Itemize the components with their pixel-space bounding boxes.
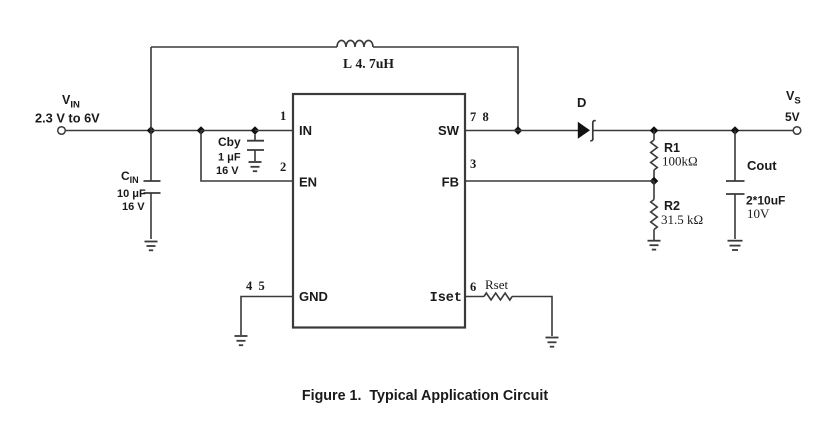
svg-text:31.5 kΩ: 31.5 kΩ <box>661 212 703 227</box>
svg-text:10V: 10V <box>747 206 770 221</box>
svg-text:L 4. 7uH: L 4. 7uH <box>343 56 394 71</box>
node F junction (FB tap) <box>650 177 659 186</box>
node C junction <box>251 126 260 135</box>
wire top rail right segment <box>373 47 518 131</box>
input terminal VIN <box>58 127 66 135</box>
svg-text:Cout: Cout <box>747 158 777 173</box>
wire input terminal to node A <box>66 130 152 132</box>
svg-text:2.3 V to 6V: 2.3 V to 6V <box>35 111 100 126</box>
svg-text:GND: GND <box>299 289 328 304</box>
svg-text:16 V: 16 V <box>216 165 239 177</box>
wire node E down to Cout <box>734 131 736 182</box>
wire SW pin to diode anode <box>465 130 578 132</box>
svg-text:EN: EN <box>299 175 317 190</box>
capacitor CIN <box>144 181 161 239</box>
ground GND pin <box>235 336 248 345</box>
wire node B to node C <box>201 130 255 132</box>
svg-text:1 μF: 1 μF <box>218 152 241 164</box>
node A junction <box>147 126 156 135</box>
svg-text:CIN: CIN <box>121 169 139 185</box>
wire EN: node B down and right to EN pin <box>201 131 293 182</box>
svg-text:6: 6 <box>470 280 476 294</box>
IC U1 body <box>293 94 465 328</box>
svg-text:2: 2 <box>280 160 286 174</box>
wire node A to node B <box>151 130 201 132</box>
ground Cout <box>728 241 743 250</box>
svg-text:VIN: VIN <box>62 93 80 111</box>
wire GND pin left and down <box>241 297 293 336</box>
ground Rset <box>546 338 559 347</box>
svg-text:D: D <box>577 95 586 110</box>
wire FB pin to node F <box>465 180 654 182</box>
svg-text:R2: R2 <box>664 199 680 213</box>
svg-text:IN: IN <box>299 123 312 138</box>
svg-text:Rset: Rset <box>485 277 509 292</box>
svg-text:FB: FB <box>442 175 459 190</box>
wire node C to IN pin <box>255 130 293 132</box>
svg-text:VS: VS <box>786 89 801 107</box>
wire Rset to ground <box>512 297 552 337</box>
svg-text:Cby: Cby <box>218 135 241 149</box>
svg-text:16 V: 16 V <box>122 201 145 213</box>
node SW junction <box>514 126 523 135</box>
capacitor Cby <box>247 134 264 161</box>
capacitor Cout <box>726 181 745 239</box>
svg-text:5V: 5V <box>785 110 800 124</box>
wire vertical left riser x=151 top rail to CIN <box>150 47 152 181</box>
node B junction <box>197 126 206 135</box>
output terminal VS <box>793 127 801 135</box>
node D junction (R1 tap) <box>650 126 659 135</box>
svg-text:1: 1 <box>280 109 286 123</box>
resistor R1 <box>651 131 658 182</box>
ground R2 <box>648 241 661 250</box>
resistor Rset <box>484 293 512 300</box>
svg-text:SW: SW <box>438 123 460 138</box>
resistor R2 <box>651 181 658 240</box>
wire diode cathode to output terminal <box>593 130 794 132</box>
svg-text:3: 3 <box>470 157 476 171</box>
svg-text:4 5: 4 5 <box>246 279 265 293</box>
svg-text:100kΩ: 100kΩ <box>662 154 698 169</box>
svg-text:Figure 1. Typical Application: Figure 1. Typical Application Circuit <box>302 388 548 404</box>
diode D <box>578 121 596 141</box>
ground CIN <box>145 242 158 251</box>
node E junction (Cout tap) <box>731 126 740 135</box>
svg-text:10 μF: 10 μF <box>117 188 146 200</box>
svg-text:7 8: 7 8 <box>470 110 489 124</box>
svg-text:Iset: Iset <box>430 291 462 306</box>
inductor L 4.7uH <box>337 40 373 47</box>
wire top rail left segment <box>151 46 337 48</box>
ground Cby <box>249 162 262 171</box>
wire Iset pin to Rset <box>465 296 484 298</box>
